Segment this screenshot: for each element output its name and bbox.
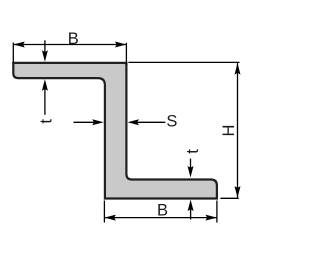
dim B bottom: dimension line bbox=[104, 217, 216, 219]
dim S: left arrow bbox=[74, 121, 96, 123]
dim B top: left extension line bbox=[12, 43, 14, 63]
svg-text:B: B bbox=[68, 30, 79, 48]
dim H: dimension line bbox=[237, 63, 239, 198]
dim H: bottom extension line bbox=[220, 197, 238, 199]
Z-profile body bbox=[13, 63, 217, 199]
svg-text:t: t bbox=[184, 149, 202, 154]
svg-text:B: B bbox=[157, 202, 168, 220]
dim B bottom: left extension line bbox=[103, 201, 105, 223]
t upper: up arrow to flange bottom bbox=[44, 88, 46, 115]
dim B bottom: left arrowhead bbox=[104, 215, 116, 221]
t lower: down arrow to flange top bbox=[190, 159, 192, 169]
t lower: up arrow to flange bottom bbox=[190, 208, 192, 220]
dim B bottom: right extension line bbox=[216, 201, 218, 223]
svg-text:t: t bbox=[37, 119, 55, 124]
dim B top: left arrowhead bbox=[13, 42, 24, 48]
dim B top: right arrowhead bbox=[115, 42, 127, 48]
svg-text:H: H bbox=[220, 125, 238, 137]
dim H: bottom arrowhead bbox=[235, 186, 241, 198]
dim H: top extension line bbox=[128, 61, 239, 63]
dim B top: right extension line bbox=[125, 43, 127, 65]
dim S: right arrow bbox=[136, 121, 165, 123]
dim B top: dimension line bbox=[13, 44, 126, 46]
svg-text:S: S bbox=[166, 113, 177, 131]
dim B bottom: right arrowhead bbox=[205, 215, 217, 221]
t upper: down arrow to flange top bbox=[44, 40, 46, 53]
dim H: top arrowhead bbox=[235, 63, 241, 75]
